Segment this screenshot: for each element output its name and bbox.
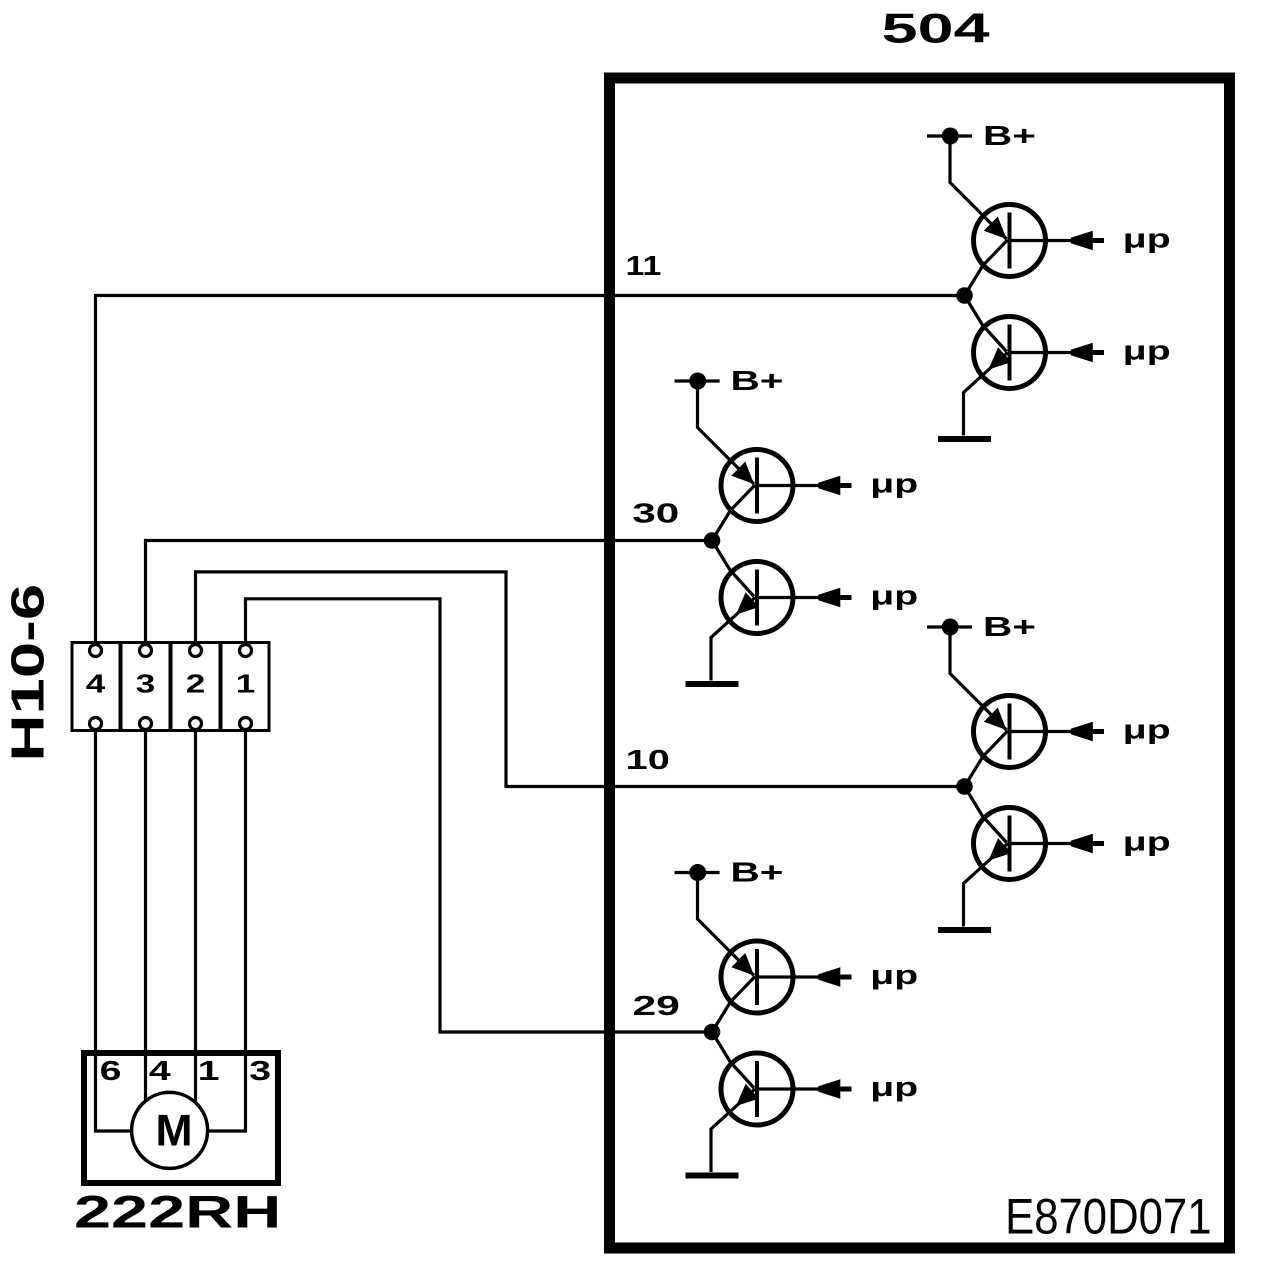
svg-text:4: 4 <box>86 669 106 698</box>
svg-text:504: 504 <box>882 5 991 52</box>
svg-text:M: M <box>155 1107 192 1156</box>
svg-text:E870D071: E870D071 <box>1005 1189 1211 1246</box>
svg-text:4: 4 <box>149 1055 171 1086</box>
svg-text:1: 1 <box>198 1055 220 1086</box>
svg-text:11: 11 <box>626 250 662 282</box>
svg-text:1: 1 <box>236 669 256 698</box>
svg-text:3: 3 <box>136 669 156 698</box>
svg-text:222RH: 222RH <box>74 1188 281 1238</box>
svg-text:30: 30 <box>632 497 679 528</box>
svg-text:10: 10 <box>626 745 670 776</box>
svg-text:H10-6: H10-6 <box>2 584 53 762</box>
svg-text:29: 29 <box>633 989 680 1021</box>
svg-text:6: 6 <box>100 1055 122 1086</box>
svg-text:2: 2 <box>186 669 206 698</box>
svg-text:3: 3 <box>249 1055 271 1086</box>
